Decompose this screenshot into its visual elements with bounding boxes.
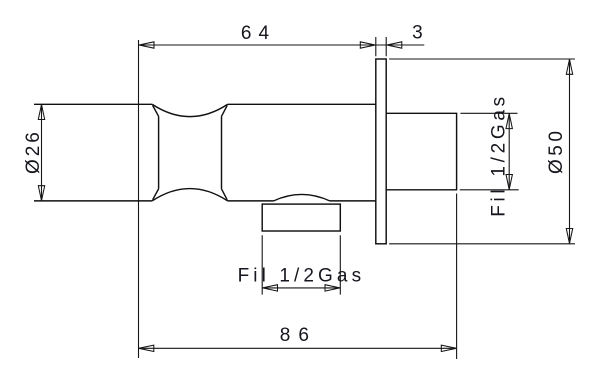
arrow Ø50 up bbox=[566, 59, 572, 74]
dimension line Ø26 bbox=[41, 104, 43, 201]
grip top concave arc bbox=[152, 104, 227, 116]
arrow dim 3 bbox=[387, 42, 402, 48]
extension lines above flange bbox=[376, 37, 386, 56]
svg-text:Ø26: Ø26 bbox=[23, 129, 44, 174]
outlet fillet arc bbox=[273, 194, 330, 201]
barrel top edge with Ø26 extension bbox=[34, 103, 376, 105]
svg-text:86: 86 bbox=[280, 325, 317, 346]
arrow Fil vertical down bbox=[506, 175, 512, 190]
dimension line 64 and 3 bbox=[139, 44, 424, 46]
arrow Fil bottom left bbox=[263, 285, 278, 291]
grip corner chamfers bbox=[153, 105, 228, 199]
arrow Ø26 down bbox=[38, 186, 44, 201]
grip bottom concave arc bbox=[152, 189, 227, 201]
svg-text:Fil 1/2Gas: Fil 1/2Gas bbox=[488, 93, 509, 217]
arrow Fil vertical up bbox=[506, 114, 512, 129]
arrow 86 left bbox=[139, 345, 154, 351]
arrow 64 left bbox=[139, 42, 154, 48]
extension line right for 86 bbox=[456, 194, 458, 360]
dimension line Fil 1/2 Gas bottom bbox=[262, 287, 340, 289]
arrow Ø26 up bbox=[38, 105, 44, 120]
wall flange bbox=[376, 59, 386, 244]
svg-text:64: 64 bbox=[241, 23, 276, 44]
svg-text:Ø50: Ø50 bbox=[546, 128, 567, 174]
extension lines for rear pipe thread dim bbox=[460, 113, 519, 190]
extension lines below outlet bbox=[262, 235, 340, 294]
rear pipe outline bbox=[386, 113, 456, 190]
body front face / extension line for 64-86 dims bbox=[138, 40, 140, 358]
arrow Ø50 down bbox=[566, 229, 572, 244]
barrel bottom edge with Ø26 extension bbox=[34, 200, 376, 202]
svg-text:Fil 1/2Gas: Fil 1/2Gas bbox=[238, 265, 366, 286]
grip silhouette lines bbox=[159, 116, 222, 189]
dimension line Ø50 bbox=[569, 59, 571, 244]
svg-text:3: 3 bbox=[412, 23, 423, 44]
bottom outlet stub bbox=[262, 204, 340, 231]
arrow 86 right bbox=[441, 345, 456, 351]
arrow Fil bottom right bbox=[325, 285, 340, 291]
extension lines for Ø50 bbox=[389, 59, 575, 244]
dimension line 86 bbox=[139, 347, 457, 349]
arrow 64 right bbox=[360, 42, 375, 48]
dimension line Fil 1/2 Gas vertical bbox=[508, 113, 510, 190]
